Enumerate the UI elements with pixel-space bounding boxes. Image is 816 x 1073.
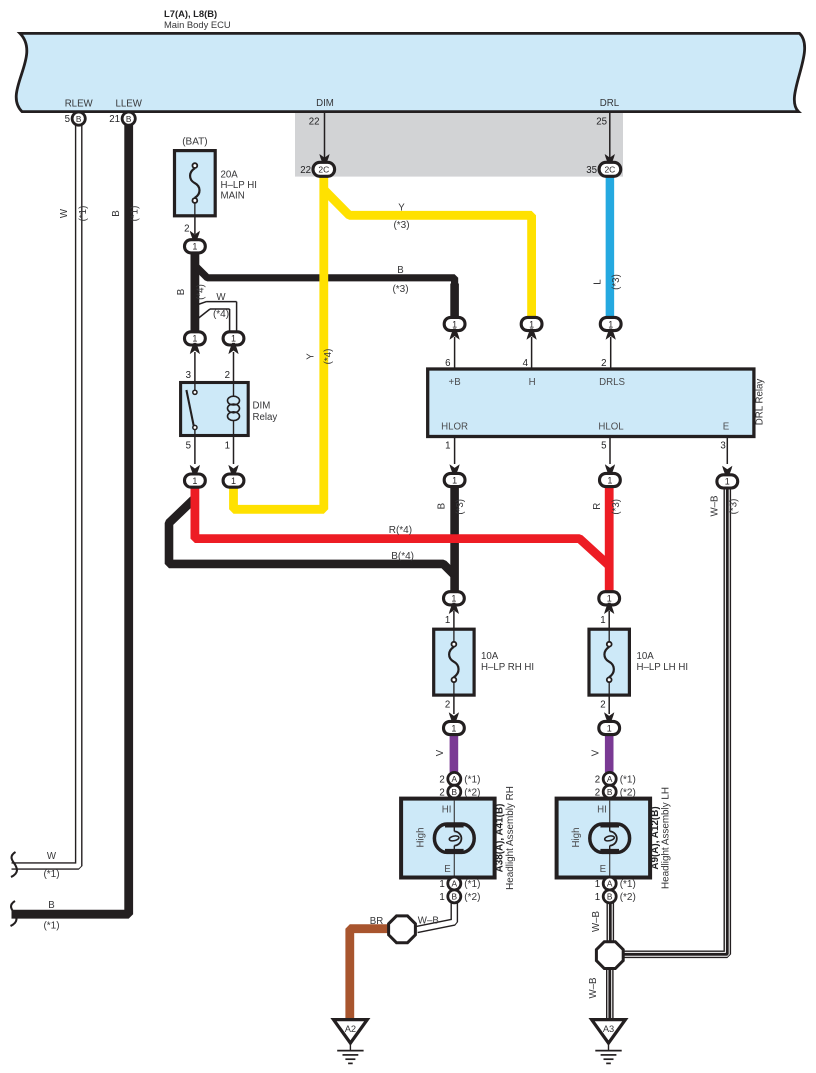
- svg-text:(*3): (*3): [393, 220, 409, 231]
- svg-text:1: 1: [231, 476, 236, 486]
- svg-text:2: 2: [595, 774, 600, 785]
- connector 1 below HLOL: [600, 473, 621, 486]
- connector 2C shaded region: [295, 113, 623, 177]
- svg-text:1: 1: [192, 334, 197, 344]
- svg-text:H: H: [529, 377, 536, 388]
- svg-text:L7(A), L8(B): L7(A), L8(B): [164, 8, 217, 19]
- svg-text:B: B: [397, 265, 403, 276]
- connector 1 below DIM relay pin 1: [223, 474, 244, 487]
- svg-text:E: E: [600, 864, 607, 875]
- wire W-B from headlight RH connector B to splice: [417, 901, 454, 930]
- svg-text:HI: HI: [597, 804, 607, 815]
- wire BR from splice to ground A2: [350, 929, 390, 1020]
- high beam bulb (Headlight Assembly LH): [590, 824, 630, 852]
- headlight assembly Headlight Assembly RH box: [401, 799, 495, 878]
- svg-text:A: A: [452, 774, 458, 784]
- connector 1 below DIM relay pin 5: [185, 474, 206, 487]
- connector 1 above DRL relay +B: [444, 317, 465, 330]
- svg-text:Y: Y: [398, 203, 405, 214]
- svg-text:B: B: [607, 892, 613, 902]
- svg-text:B(*4): B(*4): [391, 551, 414, 562]
- svg-text:2: 2: [445, 700, 450, 711]
- svg-text:1: 1: [445, 615, 450, 626]
- svg-text:W: W: [47, 851, 57, 862]
- svg-text:DRLS: DRLS: [599, 377, 625, 388]
- svg-text:W–B: W–B: [710, 496, 721, 517]
- svg-text:3: 3: [720, 440, 725, 451]
- svg-text:A: A: [452, 879, 458, 889]
- connector 1 below 20A fuse: [185, 240, 206, 253]
- svg-text:(*1): (*1): [620, 879, 636, 890]
- fuse 10A H-LP RH HI: [434, 629, 474, 695]
- svg-text:1: 1: [595, 892, 600, 903]
- svg-text:(*4): (*4): [196, 284, 207, 300]
- svg-text:(*4): (*4): [213, 309, 229, 320]
- svg-text:A38(A), A41(B): A38(A), A41(B): [495, 804, 506, 873]
- connector 1 above DIM relay pin 2: [223, 332, 244, 345]
- svg-text:R(*4): R(*4): [389, 525, 412, 536]
- svg-text:DIM: DIM: [316, 98, 334, 109]
- svg-text:A: A: [607, 774, 613, 784]
- svg-text:Y: Y: [306, 353, 317, 360]
- svg-text:Headlight Assembly RH: Headlight Assembly RH: [505, 786, 516, 890]
- relay DIM Relay: [181, 383, 249, 436]
- wire W(*4) option branch upper line: [198, 302, 207, 305]
- svg-text:A9(A), A12(B): A9(A), A12(B): [650, 806, 661, 869]
- high beam bulb (Headlight Assembly RH): [434, 824, 474, 852]
- svg-text:2: 2: [439, 774, 444, 785]
- wire B(*4) from DIM relay output junction to RH fuse line: [169, 500, 455, 576]
- svg-text:1: 1: [607, 723, 612, 733]
- wire W(*4) option branch lower line: [198, 309, 210, 319]
- svg-text:5: 5: [601, 440, 606, 451]
- svg-text:LLEW: LLEW: [116, 98, 143, 109]
- splice point (RH ground): [389, 916, 416, 943]
- svg-text:2: 2: [600, 700, 605, 711]
- break symbol W wire: [11, 852, 17, 877]
- svg-text:DRL: DRL: [600, 98, 620, 109]
- svg-text:MAIN: MAIN: [221, 191, 245, 202]
- svg-text:(*1): (*1): [464, 774, 480, 785]
- svg-text:High: High: [571, 828, 582, 848]
- svg-text:A2: A2: [345, 1024, 356, 1034]
- svg-text:(*1): (*1): [78, 206, 89, 222]
- svg-text:H–LP LH HI: H–LP LH HI: [637, 662, 689, 673]
- svg-text:High: High: [415, 828, 426, 848]
- svg-text:3: 3: [186, 370, 191, 381]
- svg-text:Headlight Assembly LH: Headlight Assembly LH: [660, 787, 671, 889]
- svg-text:1: 1: [451, 594, 456, 604]
- svg-text:1: 1: [225, 441, 230, 452]
- wire W-B(*3) from DRL relay E connector down to splice: [624, 486, 727, 954]
- connector 1 below RH fuse: [444, 721, 465, 734]
- relay DRL Relay: [428, 369, 754, 437]
- svg-text:1: 1: [529, 319, 534, 329]
- svg-text:B: B: [126, 114, 132, 124]
- wire R from DIM relay pin 5 connector, R(*4) run to LH side: [195, 486, 609, 566]
- svg-text:HI: HI: [442, 804, 452, 815]
- svg-text:H–LP RH HI: H–LP RH HI: [481, 662, 534, 673]
- splice point (LH ground): [596, 942, 623, 969]
- svg-text:1: 1: [439, 879, 444, 890]
- svg-text:R: R: [592, 503, 603, 510]
- wire V from RH 10A fuse connector to headlight RH connector A: [450, 733, 459, 772]
- svg-text:1: 1: [600, 615, 605, 626]
- svg-text:Main Body ECU: Main Body ECU: [164, 19, 231, 30]
- svg-text:B: B: [437, 503, 448, 509]
- wire V from LH 10A fuse connector to headlight LH connector A: [605, 733, 614, 772]
- svg-text:(*1): (*1): [43, 869, 59, 880]
- svg-text:+B: +B: [449, 377, 461, 388]
- connector 1 below HLOR: [444, 473, 465, 486]
- wire B from LLEW pin 21 down and to left page edge (*1): [12, 125, 129, 914]
- svg-text:25: 25: [596, 117, 607, 128]
- svg-text:5: 5: [186, 441, 191, 452]
- svg-text:2C: 2C: [604, 165, 615, 175]
- svg-text:1: 1: [445, 440, 450, 451]
- svg-text:HLOR: HLOR: [441, 421, 468, 432]
- break symbol B wire: [11, 901, 17, 926]
- svg-text:22: 22: [309, 117, 320, 128]
- svg-text:20A: 20A: [221, 170, 239, 181]
- ground A2: [334, 1020, 368, 1044]
- connector 1 below E: [717, 475, 738, 488]
- svg-text:(*2): (*2): [620, 892, 636, 903]
- wire B(*3) vertical into +B connector: [450, 284, 459, 321]
- wire W-B from headlight LH connector B to splice: [606, 901, 614, 942]
- svg-text:E: E: [444, 864, 451, 875]
- svg-text:1: 1: [595, 879, 600, 890]
- svg-text:V: V: [590, 749, 601, 756]
- svg-text:2: 2: [225, 370, 230, 381]
- svg-text:HLOL: HLOL: [598, 421, 624, 432]
- svg-text:1: 1: [192, 476, 197, 486]
- connector 1 above RH fuse: [444, 592, 465, 605]
- svg-text:(*4): (*4): [323, 349, 334, 365]
- svg-text:(*3): (*3): [611, 499, 622, 515]
- wire W-B from splice to ground A3: [606, 968, 614, 1019]
- wire R(*3) from HLOL connector down to LH fuse connector: [605, 486, 614, 593]
- svg-text:1: 1: [607, 594, 612, 604]
- svg-text:1: 1: [452, 319, 457, 329]
- svg-text:W: W: [216, 292, 226, 303]
- svg-text:(*1): (*1): [620, 774, 636, 785]
- svg-text:(*3): (*3): [611, 274, 622, 290]
- svg-text:B: B: [452, 892, 458, 902]
- wire B(*3) branch from fuse wire to DRL relay +B connector: [196, 267, 455, 301]
- svg-text:Relay: Relay: [253, 412, 278, 423]
- wire W from RLEW pin 5 down and to left page edge (*1): [12, 125, 79, 866]
- wire Y(*3) branch to DRL relay H connector: [324, 190, 532, 320]
- svg-text:H–LP HI: H–LP HI: [221, 180, 257, 191]
- wire L(*3) from connector 2C(35) down to DRLS connector: [606, 176, 615, 319]
- svg-text:DIM: DIM: [253, 401, 271, 412]
- svg-text:B: B: [452, 787, 458, 797]
- svg-text:(*3): (*3): [728, 499, 739, 515]
- svg-text:1: 1: [439, 892, 444, 903]
- connector 1 above DRL relay H: [521, 317, 542, 330]
- svg-text:10A: 10A: [637, 651, 655, 662]
- svg-text:BR: BR: [370, 916, 383, 927]
- svg-text:1: 1: [607, 475, 612, 485]
- wire B from 20A fuse to junction, label B(*4) vertical run: [190, 249, 199, 338]
- svg-text:W: W: [59, 208, 70, 218]
- svg-text:B: B: [48, 900, 54, 911]
- svg-text:W–B: W–B: [418, 915, 439, 926]
- svg-text:21: 21: [109, 114, 120, 125]
- svg-text:W–B: W–B: [588, 978, 599, 999]
- svg-text:A: A: [607, 879, 613, 889]
- connector 1 above DRL relay DRLS: [600, 317, 621, 330]
- svg-text:1: 1: [231, 334, 236, 344]
- svg-text:2C: 2C: [318, 165, 329, 175]
- fuse 10A H-LP LH HI: [589, 629, 629, 695]
- wire B(*3) from HLOR connector down to RH fuse connector: [450, 486, 459, 593]
- svg-text:1: 1: [452, 475, 457, 485]
- svg-text:1: 1: [451, 723, 456, 733]
- svg-text:W–B: W–B: [591, 911, 602, 932]
- svg-text:B: B: [607, 787, 613, 797]
- svg-text:(*1): (*1): [464, 879, 480, 890]
- svg-text:B: B: [76, 114, 82, 124]
- svg-text:(*2): (*2): [464, 892, 480, 903]
- svg-text:A3: A3: [603, 1024, 614, 1034]
- svg-text:1: 1: [725, 477, 730, 487]
- svg-text:1: 1: [192, 242, 197, 252]
- headlight assembly Headlight Assembly LH box: [557, 799, 651, 878]
- connector 1 above DIM relay pin 3: [185, 332, 206, 345]
- svg-text:(*3): (*3): [392, 284, 408, 295]
- svg-text:E: E: [723, 421, 730, 432]
- svg-text:1: 1: [608, 319, 613, 329]
- svg-text:L: L: [593, 279, 604, 285]
- svg-text:35: 35: [586, 165, 597, 176]
- svg-text:V: V: [435, 749, 446, 756]
- connector 1 above LH fuse: [599, 592, 620, 605]
- svg-text:22: 22: [300, 165, 311, 176]
- svg-text:(*3): (*3): [455, 499, 466, 515]
- svg-text:(BAT): (BAT): [182, 137, 207, 148]
- svg-text:10A: 10A: [481, 651, 499, 662]
- main body ECU L7(A), L8(B): [16, 33, 804, 111]
- svg-text:(*1): (*1): [130, 206, 141, 222]
- svg-text:RLEW: RLEW: [65, 98, 94, 109]
- svg-text:(*1): (*1): [43, 921, 59, 932]
- svg-text:DRL Relay: DRL Relay: [755, 379, 766, 426]
- svg-text:2: 2: [184, 224, 189, 235]
- svg-text:5: 5: [65, 114, 70, 125]
- ground A3: [592, 1020, 626, 1044]
- svg-text:B: B: [111, 210, 122, 216]
- wire Y from connector 2C(22) down to DIM relay pin 1 connector, (*4): [234, 176, 324, 509]
- connector 1 below LH fuse: [599, 721, 620, 734]
- svg-text:B: B: [176, 289, 187, 295]
